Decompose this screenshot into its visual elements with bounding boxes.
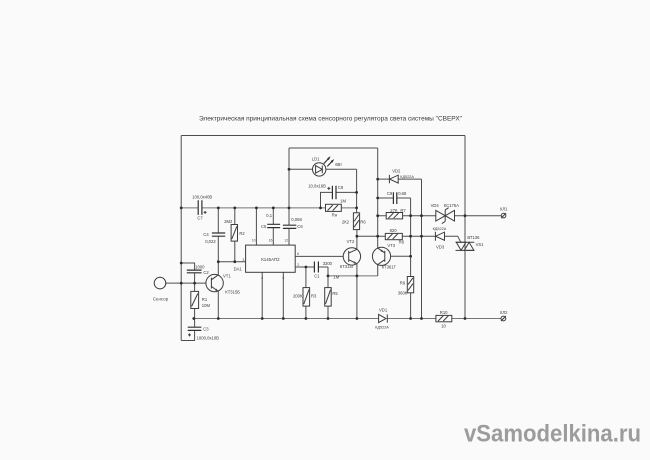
svg-text:КС175А: КС175А	[444, 203, 459, 208]
svg-text:С1: С1	[314, 274, 320, 279]
resistor R9	[398, 277, 414, 296]
junction J8	[217, 317, 220, 320]
junction J12	[272, 207, 275, 210]
transistor VT2	[340, 239, 361, 269]
svg-text:Сенсор: Сенсор	[153, 297, 169, 302]
wire right column	[464, 136, 466, 319]
svg-text:КД522А: КД522А	[400, 175, 414, 179]
junction J23	[355, 191, 358, 194]
wire VT3 emitter column	[377, 236, 379, 248]
wire R7 line	[378, 215, 436, 217]
diode VD2	[389, 169, 414, 184]
svg-text:6: 6	[297, 252, 299, 256]
wire sensor to VT1 base	[166, 282, 206, 284]
wire C2 branch	[181, 263, 194, 283]
svg-text:КТ315Г: КТ315Г	[340, 264, 355, 269]
svg-text:3300: 3300	[323, 261, 333, 266]
svg-text:Электрическая принципиальная с: Электрическая принципиальная схема сенсо…	[199, 115, 462, 122]
svg-text:100,0х40В: 100,0х40В	[192, 194, 212, 199]
svg-text:6Вт: 6Вт	[335, 162, 342, 167]
wire column x356 (LD1/C8/rail/R6)	[356, 169, 358, 213]
triac VS1 BT136	[456, 235, 485, 250]
svg-text:R6: R6	[360, 220, 366, 225]
wire C8 branch	[321, 192, 357, 208]
svg-text:5: 5	[282, 276, 284, 280]
resistor R10	[436, 310, 452, 329]
wire left frame	[180, 136, 182, 341]
svg-text:VT3: VT3	[387, 243, 395, 248]
capacitor C4	[203, 232, 225, 244]
capacitor C5	[261, 213, 280, 229]
wire VD2 line	[378, 178, 422, 180]
svg-text:2: 2	[297, 263, 299, 267]
junction J15	[305, 266, 308, 269]
terminal XL2	[500, 310, 509, 321]
svg-text:16: 16	[269, 239, 273, 243]
resistor R2	[224, 219, 245, 241]
junction J36	[420, 235, 423, 238]
wire column x421	[421, 179, 423, 318]
junction J31	[409, 214, 412, 217]
svg-text:ХЛ1: ХЛ1	[500, 207, 509, 212]
junction J5	[192, 317, 195, 320]
svg-text:VS1: VS1	[476, 242, 485, 247]
lamp HL1 (LED in circle)	[312, 156, 342, 176]
capacitor C7	[192, 194, 212, 220]
svg-text:10: 10	[441, 323, 446, 328]
svg-text:R3: R3	[311, 293, 317, 298]
junction J13	[288, 207, 291, 210]
svg-text:С7: С7	[197, 216, 203, 221]
svg-text:2М2: 2М2	[224, 219, 233, 224]
svg-text:200К: 200К	[293, 293, 303, 298]
junction J11	[255, 207, 258, 210]
wire pin3 line	[218, 261, 245, 263]
svg-text:R10: R10	[440, 310, 448, 315]
junction J34	[409, 317, 412, 320]
svg-text:12: 12	[284, 239, 288, 243]
svg-text:С6: С6	[297, 224, 303, 229]
svg-text:С2: С2	[203, 270, 209, 275]
svg-text:ХЛ2: ХЛ2	[500, 310, 509, 315]
wire bottom rail	[194, 318, 501, 320]
junction J20	[327, 317, 330, 320]
junction J26	[356, 317, 359, 320]
svg-text:Rн: Rн	[332, 212, 338, 217]
junction J10	[233, 260, 236, 263]
wire top frame	[181, 135, 465, 137]
junction J19	[305, 317, 308, 320]
svg-text:1М: 1М	[340, 198, 346, 203]
junction J27	[376, 178, 379, 181]
zener VD4 KS175A (bidirectional)	[431, 203, 460, 224]
wire LD1 left	[289, 168, 313, 170]
svg-text:1000: 1000	[195, 264, 205, 269]
wire column x289 (C6 / pin12)	[288, 148, 290, 245]
svg-text:R2: R2	[239, 231, 245, 236]
sensor electrode E1	[153, 277, 169, 301]
wire VT2 emitter column	[356, 264, 358, 319]
wire emitter line y276	[328, 275, 378, 277]
svg-text:КТ361Г: КТ361Г	[382, 264, 397, 269]
wire R5 bottom	[327, 306, 329, 318]
terminal XL1	[500, 207, 509, 219]
svg-text:VD4: VD4	[431, 203, 440, 208]
junction J32	[409, 235, 412, 238]
junction J29	[376, 214, 379, 217]
junction J6	[217, 207, 220, 210]
junction J3	[180, 282, 183, 285]
svg-text:1000,0х10В: 1000,0х10В	[197, 336, 220, 341]
junction J1	[180, 207, 183, 210]
resistor Rn (trimmer in rail)	[326, 198, 347, 217]
wire pin4 column	[261, 272, 263, 318]
svg-text:10,0х16В: 10,0х16В	[308, 184, 326, 189]
wire LD1 right	[326, 168, 357, 170]
wire R1 column	[194, 283, 196, 318]
diode VD3	[433, 227, 447, 250]
wire pin5 column	[282, 272, 284, 318]
junction J28	[376, 197, 379, 200]
junction J2	[180, 262, 183, 265]
svg-text:360К: 360К	[398, 291, 408, 296]
svg-text:К145АП2: К145АП2	[261, 257, 280, 262]
svg-text:R5: R5	[332, 291, 338, 296]
svg-text:10: 10	[252, 239, 256, 243]
IC DA1 K145AP2	[234, 239, 300, 280]
resistor R6	[342, 213, 367, 230]
capacitor C1	[314, 261, 332, 279]
junction J25	[356, 275, 359, 278]
junction J9	[233, 207, 236, 210]
junction J21	[319, 207, 322, 210]
svg-text:4: 4	[261, 276, 263, 280]
svg-text:КД522А: КД522А	[433, 227, 447, 231]
svg-text:0,68: 0,68	[398, 191, 407, 196]
wire C9 line	[378, 197, 411, 199]
junction J30	[376, 235, 379, 238]
svg-text:R8: R8	[399, 240, 405, 245]
wire pin2 / C1 line	[295, 267, 328, 288]
wire R2 column	[234, 208, 236, 262]
wire VT2 collector column	[356, 230, 358, 250]
resistor R1	[191, 291, 211, 308]
svg-text:VT1: VT1	[223, 274, 231, 279]
svg-text:LD1: LD1	[312, 156, 320, 161]
wire pin6 line	[295, 255, 343, 257]
wire pin10 column	[255, 208, 257, 245]
svg-text:VT2: VT2	[347, 239, 355, 244]
junction J7	[217, 260, 220, 263]
svg-text:27К: 27К	[390, 208, 398, 213]
svg-text:VD3: VD3	[436, 245, 445, 250]
svg-text:ВТ136: ВТ136	[467, 235, 480, 240]
capacitor C2	[187, 264, 210, 274]
junction J38	[464, 214, 467, 217]
diode VD1 (in bottom rail)	[375, 307, 389, 329]
svg-text:VD2: VD2	[392, 169, 401, 174]
resistor R8	[385, 228, 404, 245]
junction J24	[356, 235, 359, 238]
svg-text:R9: R9	[400, 280, 406, 285]
svg-text:vSamodelkina.ru: vSamodelkina.ru	[464, 421, 641, 448]
wire pin16/C5 column	[272, 208, 274, 245]
wire VT3 collector column	[377, 265, 379, 276]
junction J17	[261, 317, 264, 320]
junction J14	[288, 168, 291, 171]
capacitor C3	[188, 327, 219, 341]
svg-text:1М: 1М	[333, 274, 339, 279]
junction J33	[409, 255, 412, 258]
svg-text:КД522А: КД522А	[375, 326, 389, 330]
wire VT3 base	[391, 255, 411, 257]
wire column x410	[410, 198, 412, 319]
resistor R5	[325, 274, 340, 306]
svg-text:КТ315Б: КТ315Б	[225, 290, 240, 295]
svg-text:R7: R7	[400, 208, 406, 213]
junction J4	[193, 282, 196, 285]
svg-text:10М: 10М	[202, 303, 211, 308]
svg-text:0,068: 0,068	[291, 217, 302, 222]
capacitor C8	[308, 184, 344, 200]
transistor VT3 (mirrored PNP)	[372, 243, 396, 269]
junction J22	[355, 207, 358, 210]
junction J39	[464, 317, 467, 320]
resistor R7	[386, 208, 406, 219]
svg-text:VD1: VD1	[379, 307, 388, 312]
svg-text:2К2: 2К2	[342, 220, 350, 225]
resistor R3	[293, 288, 317, 307]
svg-text:R1: R1	[202, 297, 208, 302]
svg-text:DA1: DA1	[234, 266, 243, 271]
svg-text:С5: С5	[261, 224, 267, 229]
svg-text:3: 3	[242, 258, 244, 262]
svg-text:С3: С3	[203, 327, 209, 332]
svg-text:0,1: 0,1	[266, 213, 272, 218]
wire main rail y208	[181, 207, 356, 209]
svg-text:С8: С8	[338, 185, 344, 190]
capacitor C9	[387, 191, 407, 204]
wire R3 column	[305, 267, 307, 319]
transistor VT1	[206, 274, 240, 295]
svg-text:0,022: 0,022	[205, 239, 216, 244]
wire C3 column and bottom loop	[181, 319, 194, 341]
junction J37	[420, 317, 423, 320]
svg-text:820: 820	[390, 228, 398, 233]
junction J16	[327, 275, 330, 278]
capacitor C6	[283, 217, 303, 229]
junction J35	[420, 214, 423, 217]
wire C4/VT1 collector column	[217, 208, 219, 319]
junction J18	[282, 317, 285, 320]
wire inner top line	[289, 147, 378, 149]
wire column x377 upper	[377, 148, 379, 236]
wire VD4 to XL1	[455, 215, 502, 217]
svg-text:С4: С4	[203, 232, 209, 237]
wire R8 line y236	[357, 236, 461, 242]
svg-text:С9: С9	[387, 191, 393, 196]
